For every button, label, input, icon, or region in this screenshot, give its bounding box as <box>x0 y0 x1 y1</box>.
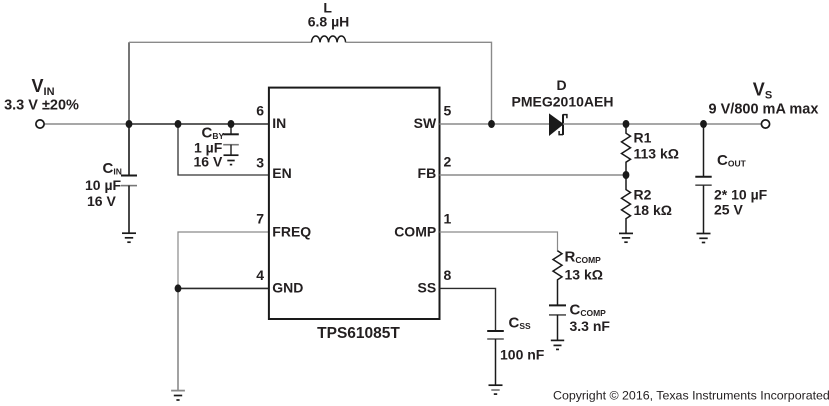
svg-text:EN: EN <box>272 165 291 181</box>
wire FREQ path <box>178 232 269 288</box>
wire GND pin <box>178 287 269 289</box>
terminal VS <box>761 120 769 128</box>
svg-text:IN: IN <box>272 115 286 131</box>
svg-text:6.8 µH: 6.8 µH <box>308 13 350 29</box>
svg-text:GND: GND <box>272 280 303 296</box>
svg-text:CCOMP: CCOMP <box>570 302 607 319</box>
svg-text:100 nF: 100 nF <box>500 347 545 363</box>
svg-text:4: 4 <box>256 267 264 283</box>
wire FB to divider <box>440 174 627 176</box>
svg-text:10 µF: 10 µF <box>85 177 122 193</box>
svg-text:8: 8 <box>444 267 452 283</box>
svg-text:2: 2 <box>444 154 452 170</box>
ground COUT <box>697 234 711 243</box>
ground R2 <box>619 233 633 242</box>
svg-text:RCOMP: RCOMP <box>565 249 602 266</box>
svg-text:7: 7 <box>256 211 264 227</box>
svg-text:COUT: COUT <box>717 152 747 169</box>
capacitor COUT <box>695 124 711 234</box>
wire SS to CSS <box>440 288 496 331</box>
svg-text:D: D <box>556 77 566 93</box>
node junction R1 top <box>623 120 630 128</box>
ground CCOMP <box>551 340 564 349</box>
svg-text:SS: SS <box>418 280 437 296</box>
inductor L <box>312 36 346 42</box>
capacitor CBY <box>223 124 239 155</box>
wire diode cathode to VS terminal <box>563 123 762 125</box>
op IC TPS61085T box <box>269 88 440 319</box>
node junction input 1 <box>126 120 133 128</box>
svg-text:R2: R2 <box>634 187 652 203</box>
wire VIN input rail (terminal to junction) <box>44 123 129 125</box>
svg-text:1: 1 <box>444 211 452 227</box>
svg-text:3: 3 <box>256 155 264 171</box>
svg-text:16 V: 16 V <box>87 193 116 209</box>
resistor R2 <box>622 175 631 233</box>
capacitor CSS <box>487 331 504 385</box>
capacitor CIN <box>121 124 137 233</box>
svg-text:3.3 nF: 3.3 nF <box>570 318 611 334</box>
node junction input 2 <box>175 120 182 128</box>
svg-text:13 kΩ: 13 kΩ <box>565 267 603 283</box>
svg-text:25 V: 25 V <box>714 202 743 218</box>
node junction COUT <box>700 120 707 128</box>
svg-text:2* 10 µF: 2* 10 µF <box>714 187 768 203</box>
svg-text:FREQ: FREQ <box>272 223 311 239</box>
wire GND junction to ground <box>177 288 179 390</box>
wire input rail to IN pin <box>129 123 269 125</box>
capacitor CCOMP <box>549 305 566 340</box>
svg-text:3.3 V ±20%: 3.3 V ±20% <box>4 98 79 114</box>
wire SW pin to diode anode <box>440 123 550 125</box>
node junction GND <box>175 284 182 292</box>
svg-text:CSS: CSS <box>509 315 532 332</box>
svg-text:VS: VS <box>753 80 772 102</box>
resistor R1 <box>622 124 631 175</box>
node junction input 3 CBY <box>228 120 235 128</box>
ground CBY <box>224 155 239 164</box>
ground CIN <box>122 233 136 242</box>
terminal VIN <box>36 120 44 128</box>
svg-text:6: 6 <box>256 103 264 119</box>
svg-text:TPS61085T: TPS61085T <box>317 325 400 342</box>
diode D PMEG2010AEH <box>550 114 567 135</box>
wire top loop from inductor to right vertical down to SW rail <box>346 42 492 124</box>
svg-text:R1: R1 <box>634 130 652 146</box>
svg-text:PMEG2010AEH: PMEG2010AEH <box>512 94 614 110</box>
svg-text:VIN: VIN <box>32 76 55 98</box>
wire EN path <box>178 124 269 175</box>
svg-text:18 kΩ: 18 kΩ <box>634 202 672 218</box>
svg-text:9 V/800 mA max: 9 V/800 mA max <box>709 102 819 118</box>
svg-text:113 kΩ: 113 kΩ <box>634 146 680 162</box>
node junction FB <box>623 171 630 179</box>
ground CSS <box>489 385 503 394</box>
node junction SW <box>488 120 495 128</box>
svg-text:Copyright © 2016, Texas Instru: Copyright © 2016, Texas Instruments Inco… <box>553 389 829 403</box>
resistor RCOMP <box>553 251 562 306</box>
wire top loop left vertical and horizontal to inductor <box>128 42 130 124</box>
wire COMP to RCOMP <box>440 232 558 252</box>
svg-text:COMP: COMP <box>394 223 436 239</box>
svg-text:FB: FB <box>418 165 437 181</box>
svg-text:SW: SW <box>414 115 437 131</box>
svg-text:CIN: CIN <box>103 160 122 177</box>
ground GND pin <box>171 391 185 400</box>
svg-text:5: 5 <box>444 103 452 119</box>
svg-text:16 V: 16 V <box>194 154 223 170</box>
